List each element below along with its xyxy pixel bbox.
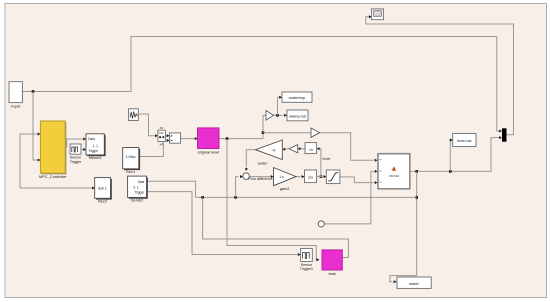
svg-text:KF: KF — [160, 142, 164, 146]
svg-text:watertmp: watertmp — [289, 95, 306, 100]
svg-text:-K-: -K- — [272, 148, 277, 152]
svg-text:KF: KF — [160, 126, 164, 130]
svg-text:Trigger: Trigger — [134, 191, 145, 195]
svg-text:original level: original level — [197, 150, 219, 155]
svg-text:Rec1: Rec1 — [126, 169, 135, 174]
svg-text:valvola: valvola — [389, 174, 399, 178]
svg-text:Rec2: Rec2 — [98, 199, 107, 204]
svg-text:waterq.mat: waterq.mat — [289, 114, 306, 118]
svg-text:Data: Data — [88, 137, 95, 141]
svg-text:0, 1: 0, 1 — [133, 185, 139, 189]
svg-text:Flow difference: Flow difference — [248, 177, 272, 181]
svg-text:gain2: gain2 — [280, 186, 290, 191]
svg-text:water: water — [409, 281, 419, 286]
svg-text:Memb1: Memb1 — [89, 155, 102, 160]
svg-text:MPC_Controller: MPC_Controller — [39, 174, 67, 179]
svg-text:Trigger1: Trigger1 — [300, 267, 313, 271]
svg-text:water: water — [258, 160, 268, 165]
svg-text:√u: √u — [309, 147, 313, 152]
svg-text:tank: tank — [329, 271, 336, 276]
svg-text:Trigger: Trigger — [70, 160, 82, 164]
svg-text:level: level — [323, 157, 331, 161]
svg-text:Data: Data — [138, 180, 145, 184]
svg-text:1.s: 1.s — [279, 175, 284, 179]
svg-text:1-Step: 1-Step — [126, 155, 136, 159]
svg-text:1/s: 1/s — [308, 174, 313, 179]
svg-text:1, 1: 1, 1 — [93, 144, 99, 148]
svg-text:Sub 1: Sub 1 — [98, 186, 107, 190]
svg-text:Trigger: Trigger — [88, 149, 99, 153]
svg-text:level.mat: level.mat — [457, 139, 471, 143]
svg-text:Demb2: Demb2 — [131, 198, 144, 203]
svg-text:Input: Input — [11, 104, 21, 109]
